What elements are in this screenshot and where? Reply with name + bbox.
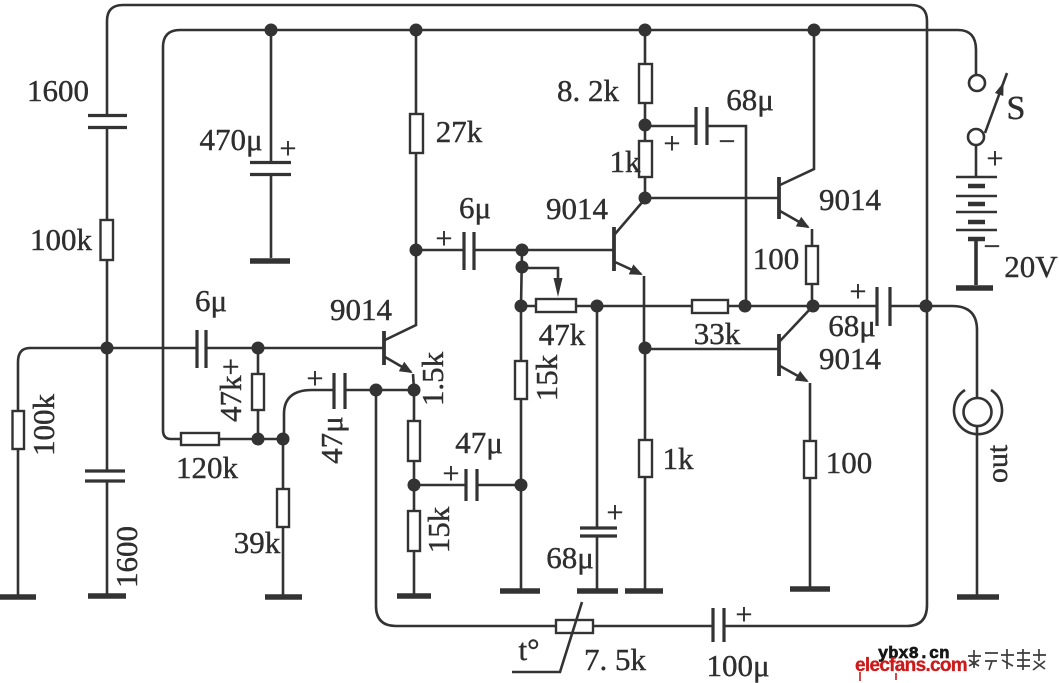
ground under input resistor (0, 594, 36, 600)
wire Q4 base row (645, 348, 779, 351)
svg-text:−: − (719, 125, 736, 158)
wire 1.5k / 15k chain (413, 390, 416, 596)
capacitor 68u bottom (580, 528, 617, 536)
capacitor 47u second (466, 469, 477, 501)
resistor 100k left column (101, 220, 114, 260)
capacitor 1600 upper (88, 116, 127, 128)
wire left column x=107 (106, 128, 109, 596)
resistor 1k upper (639, 141, 652, 177)
svg-text:t°: t° (518, 632, 539, 667)
potentiometer 47k (536, 299, 576, 312)
resistor 8.2k (639, 64, 652, 103)
junction node 120k / 39k / 47u (277, 433, 290, 446)
watermark chinese characters (968, 649, 1046, 670)
wire inner rail V+ (163, 30, 976, 439)
svg-text:100: 100 (753, 241, 800, 276)
svg-text:+: + (664, 127, 681, 160)
junction node 47k / 120k (252, 433, 265, 446)
wire 47u left cap row (284, 390, 414, 439)
capacitor 6u input (197, 330, 206, 368)
svg-text:9014: 9014 (819, 182, 882, 217)
jack out (964, 398, 992, 426)
resistor 100k input (13, 411, 25, 449)
wire 470u branch (270, 30, 273, 258)
svg-text:+: + (436, 222, 453, 255)
svg-text:68μ: 68μ (828, 308, 876, 343)
svg-text:6μ: 6μ (459, 190, 491, 225)
junction node Q1 emitter / 1.5k (408, 384, 421, 397)
ground under 100 Q4 (790, 586, 830, 592)
resistor 1k bottom (639, 440, 652, 477)
junction node 27k / 6u / Q1 collector (410, 244, 423, 257)
junction node input / feedback divider (101, 342, 114, 355)
ground under 15k (397, 593, 431, 599)
watermark elecfans.com (855, 655, 967, 681)
transistor Q2 9014 (612, 227, 616, 271)
capacitor 1600 lower (85, 471, 125, 481)
svg-text:9014: 9014 (819, 341, 882, 376)
junction node 1k / Q2 collector / Q3 base (639, 192, 652, 205)
wire Q3 base row (645, 197, 779, 200)
transistor Q1 9014 (382, 331, 386, 365)
wire outer right vertical lower (725, 306, 927, 626)
switch S (969, 75, 985, 91)
svg-text:15k: 15k (529, 354, 564, 401)
svg-text:out: out (981, 444, 1014, 483)
wire 68u top cap row (645, 126, 746, 306)
junction node Q2 emitter / 1k / Q4 base (639, 342, 652, 355)
junction node rail / Q3 emitter / Q4 collector (807, 300, 820, 313)
svg-text:+: + (280, 132, 297, 165)
resistor 33k (692, 300, 728, 313)
wire 39k branch (282, 439, 285, 596)
resistor 47k vertical (252, 374, 264, 410)
junction node 15k / 47u (515, 479, 528, 492)
svg-text:33k: 33k (694, 316, 741, 351)
svg-text:1k: 1k (663, 441, 695, 476)
svg-text:47μ: 47μ (455, 425, 503, 460)
junction node 6u / Q2 base (516, 244, 529, 257)
svg-text:27k: 27k (436, 114, 483, 149)
wire 27k branch (385, 30, 416, 340)
wire input row to 6u cap (107, 347, 384, 350)
svg-text:1k: 1k (610, 144, 642, 179)
svg-text:+: + (443, 457, 460, 490)
svg-text:20V: 20V (1004, 249, 1058, 284)
svg-text:100μ: 100μ (706, 648, 769, 683)
ground under jack (957, 594, 999, 600)
svg-text:100: 100 (826, 445, 873, 480)
svg-text:100k: 100k (26, 394, 61, 457)
svg-text:47k: 47k (539, 317, 586, 352)
svg-text:+: + (736, 598, 753, 631)
svg-text:100k: 100k (30, 222, 93, 257)
svg-text:68μ: 68μ (546, 540, 594, 575)
junction node 6u / 47k / Q1 base (252, 342, 265, 355)
wire output to jack (926, 306, 977, 398)
junction node 8.2k / 1k / 68u (639, 119, 652, 132)
transistor Q3 9014 (777, 177, 781, 219)
svg-text:1600: 1600 (109, 526, 144, 588)
ground under pot column (500, 588, 540, 594)
svg-text:47k+: 47k+ (213, 358, 248, 422)
wire pot column x=521 (521, 250, 522, 591)
junction node rail / 68u top (739, 300, 752, 313)
svg-text:47μ: 47μ (314, 416, 349, 464)
resistor 100 Q4 (804, 441, 816, 478)
junction node pot left / 15k (515, 300, 528, 313)
wire input line (18, 348, 107, 596)
capacitor 68u top (696, 107, 707, 145)
svg-text:9014: 9014 (546, 191, 609, 226)
svg-text:9014: 9014 (330, 292, 393, 327)
svg-text:120k: 120k (176, 450, 239, 485)
svg-text:1.5k: 1.5k (415, 351, 450, 406)
battery 20V (975, 145, 978, 177)
junction node 1.5k / 15k / 47u (408, 479, 421, 492)
junction node Q1 emitter / feedback (370, 384, 383, 397)
junction node output (920, 300, 933, 313)
thermistor 7.5k (556, 620, 593, 633)
resistor 120k (181, 433, 219, 445)
wire 8.2k 1k chain (644, 30, 647, 198)
resistor 1.5k (408, 421, 420, 461)
resistor 100 Q3 (806, 246, 818, 284)
wire 68u bottom branch (596, 306, 599, 591)
capacitor 68u output (877, 287, 890, 326)
ground under 1k bottom (625, 588, 663, 594)
ground under 39k (265, 594, 302, 600)
svg-text:15k: 15k (421, 506, 456, 553)
svg-text:6μ: 6μ (195, 283, 227, 318)
resistor 15k lower (408, 511, 420, 551)
wire bottom left of thermistor to emitter node (376, 390, 556, 626)
ground under 470u (250, 258, 290, 264)
capacitor 47u left (334, 373, 345, 409)
capacitor 6u second (464, 232, 474, 270)
junction node rail / 68u bottom (591, 300, 604, 313)
ground under left column (88, 593, 126, 599)
resistor 15k pot column (515, 361, 527, 399)
svg-text:S: S (1007, 90, 1026, 127)
junction node V+ rail / Q3 collector (808, 24, 821, 37)
wire jack to ground (976, 426, 979, 597)
wire rail y306 (521, 305, 926, 308)
wire 47u second cap row (414, 484, 521, 487)
svg-text:+: + (607, 496, 624, 529)
wire 6u second cap row (416, 249, 614, 252)
svg-text:+: + (850, 275, 867, 308)
resistor 27k (410, 114, 423, 153)
svg-text:8. 2k: 8. 2k (557, 73, 620, 108)
junction node wiper tap (516, 261, 529, 274)
svg-text:elecfans.com: elecfans.com (855, 655, 967, 676)
svg-text:39k: 39k (234, 525, 281, 560)
svg-text:−: − (984, 230, 1001, 263)
wire 1k bottom branch (644, 348, 647, 591)
transistor Q4 9014 (777, 334, 781, 376)
ground under 68u bottom (577, 588, 618, 594)
resistor 39k (277, 489, 289, 527)
junction node V+ rail / 27k (410, 24, 423, 37)
capacitor 100u (713, 608, 724, 642)
junction node V+ rail / 470u (265, 24, 278, 37)
wire bottom between 100u and thermistor (593, 625, 712, 628)
svg-text:+: + (307, 362, 324, 395)
svg-text:+: + (987, 142, 1004, 175)
wire 47k vertical connections (257, 348, 260, 439)
junction node V+ rail / 8.2k (639, 24, 652, 37)
svg-text:7. 5k: 7. 5k (584, 642, 647, 677)
svg-text:1600: 1600 (27, 73, 89, 108)
wire 120k to node (219, 438, 283, 441)
svg-text:68μ: 68μ (726, 82, 774, 117)
potentiometer wiper arrow (522, 268, 558, 280)
capacitor 470u (250, 163, 291, 175)
wire outer feedback loop top (107, 5, 927, 306)
svg-text:470μ: 470μ (199, 122, 262, 157)
